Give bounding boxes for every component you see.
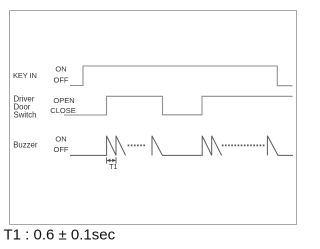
svg-text:T1: T1	[109, 162, 117, 171]
svg-text:OFF: OFF	[54, 75, 69, 84]
svg-text:ON: ON	[55, 65, 66, 74]
svg-text:OPEN: OPEN	[53, 96, 74, 105]
svg-text:Switch: Switch	[14, 111, 37, 120]
svg-text:T1 : 0.6 ± 0.1sec: T1 : 0.6 ± 0.1sec	[4, 226, 116, 243]
svg-text:OFF: OFF	[54, 145, 69, 154]
svg-text:ON: ON	[55, 135, 66, 144]
svg-text:CLOSE: CLOSE	[50, 106, 75, 115]
svg-text:KEY IN: KEY IN	[13, 71, 37, 80]
svg-text:Buzzer: Buzzer	[13, 140, 38, 149]
